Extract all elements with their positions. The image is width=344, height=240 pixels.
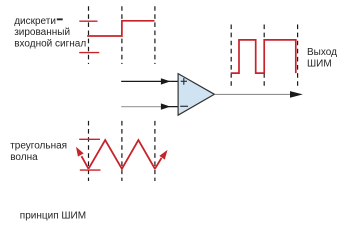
level tick (triangle max) (79, 138, 100, 140)
wire (output) (214, 91, 302, 98)
svg-text:дискрети: дискрети (14, 16, 56, 27)
wire (inverting input) (121, 103, 178, 109)
PWM output waveform (231, 40, 296, 73)
time guide t1 (bottom section) (121, 121, 123, 181)
pin - (inverting) (180, 105, 188, 107)
label: PWM output (307, 47, 337, 70)
time guide t2 (top section) (154, 6, 156, 64)
level tick (input max) (79, 20, 97, 22)
svg-text:треугольная: треугольная (10, 141, 67, 152)
time guide t2 (output section) (297, 25, 299, 87)
svg-text:ШИМ: ШИМ (307, 58, 332, 69)
svg-text:входной сигнал: входной сигнал (14, 39, 86, 50)
svg-text:Выход: Выход (307, 47, 337, 58)
svg-text:принцип ШИМ: принцип ШИМ (20, 211, 86, 222)
pin + (non-inverting) (181, 78, 187, 85)
label: discretized input signal (14, 16, 86, 50)
label: triangle wave (10, 141, 67, 164)
svg-text:волна: волна (10, 152, 38, 163)
level tick (input min) (79, 52, 99, 54)
op-amp comparator U1 (178, 74, 214, 116)
level tick (triangle min) (80, 169, 101, 171)
time guide t2 (bottom section) (154, 121, 156, 181)
svg-text:зированный: зированный (14, 27, 70, 38)
time guide t0 (bottom section) (88, 121, 90, 181)
time guide t0 (top section) (88, 6, 90, 64)
time guide t1 (output section) (263, 25, 265, 87)
triangle wave (76, 140, 168, 169)
time guide t1 (top section) (121, 6, 123, 64)
time guide t0 (output section) (230, 25, 232, 87)
wire (non-inverting input) (121, 78, 178, 84)
sampled input signal waveform (87, 21, 154, 36)
